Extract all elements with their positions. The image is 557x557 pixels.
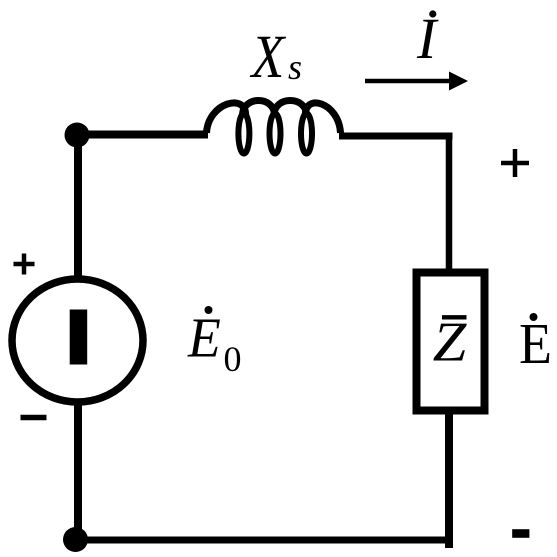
plus sign at source top [14, 254, 35, 275]
wire left vertical from source to node B [74, 402, 82, 540]
wire right vertical down to impedance box [446, 133, 453, 270]
svg-text:X: X [250, 24, 286, 91]
label E0 (source emf) [187, 306, 221, 369]
minus sign at load bottom [512, 529, 529, 538]
inductor Xs loop 1 [238, 114, 249, 154]
label Z with overbar [433, 311, 467, 373]
wire left vertical from node A to source [74, 133, 82, 280]
wire top-right horizontal from inductor to corner [339, 133, 453, 140]
impedance Z box [417, 273, 485, 411]
node B (bottom junction dot) [63, 527, 88, 552]
svg-text:E: E [187, 306, 221, 369]
plus sign at load top [501, 149, 529, 177]
inductor Xs loop 3 [301, 114, 312, 154]
svg-text:0: 0 [224, 339, 242, 379]
dot above I [429, 10, 436, 17]
wire top-left horizontal from node to inductor [75, 131, 208, 139]
voltage source E0 circle [12, 279, 143, 402]
current arrow [365, 79, 450, 84]
svg-text:E: E [519, 312, 552, 376]
minus sign at source bottom [21, 415, 47, 421]
inductor Xs coil arch 1 [207, 103, 246, 133]
svg-text:Z: Z [433, 311, 467, 373]
inductor Xs coil arch 4 [305, 103, 340, 133]
wire right vertical from box to bottom [445, 414, 453, 548]
inductor Xs loop 2 [270, 114, 281, 154]
wire bottom horizontal [74, 537, 453, 544]
inductor Xs coil arch 2 [243, 101, 275, 115]
voltage source inner bar [70, 310, 88, 365]
node A (top junction dot) [65, 123, 90, 148]
svg-text:s: s [288, 47, 302, 87]
label Xs [250, 24, 286, 91]
label E (terminal voltage) [519, 312, 552, 376]
inductor Xs coil arch 3 [274, 101, 307, 115]
